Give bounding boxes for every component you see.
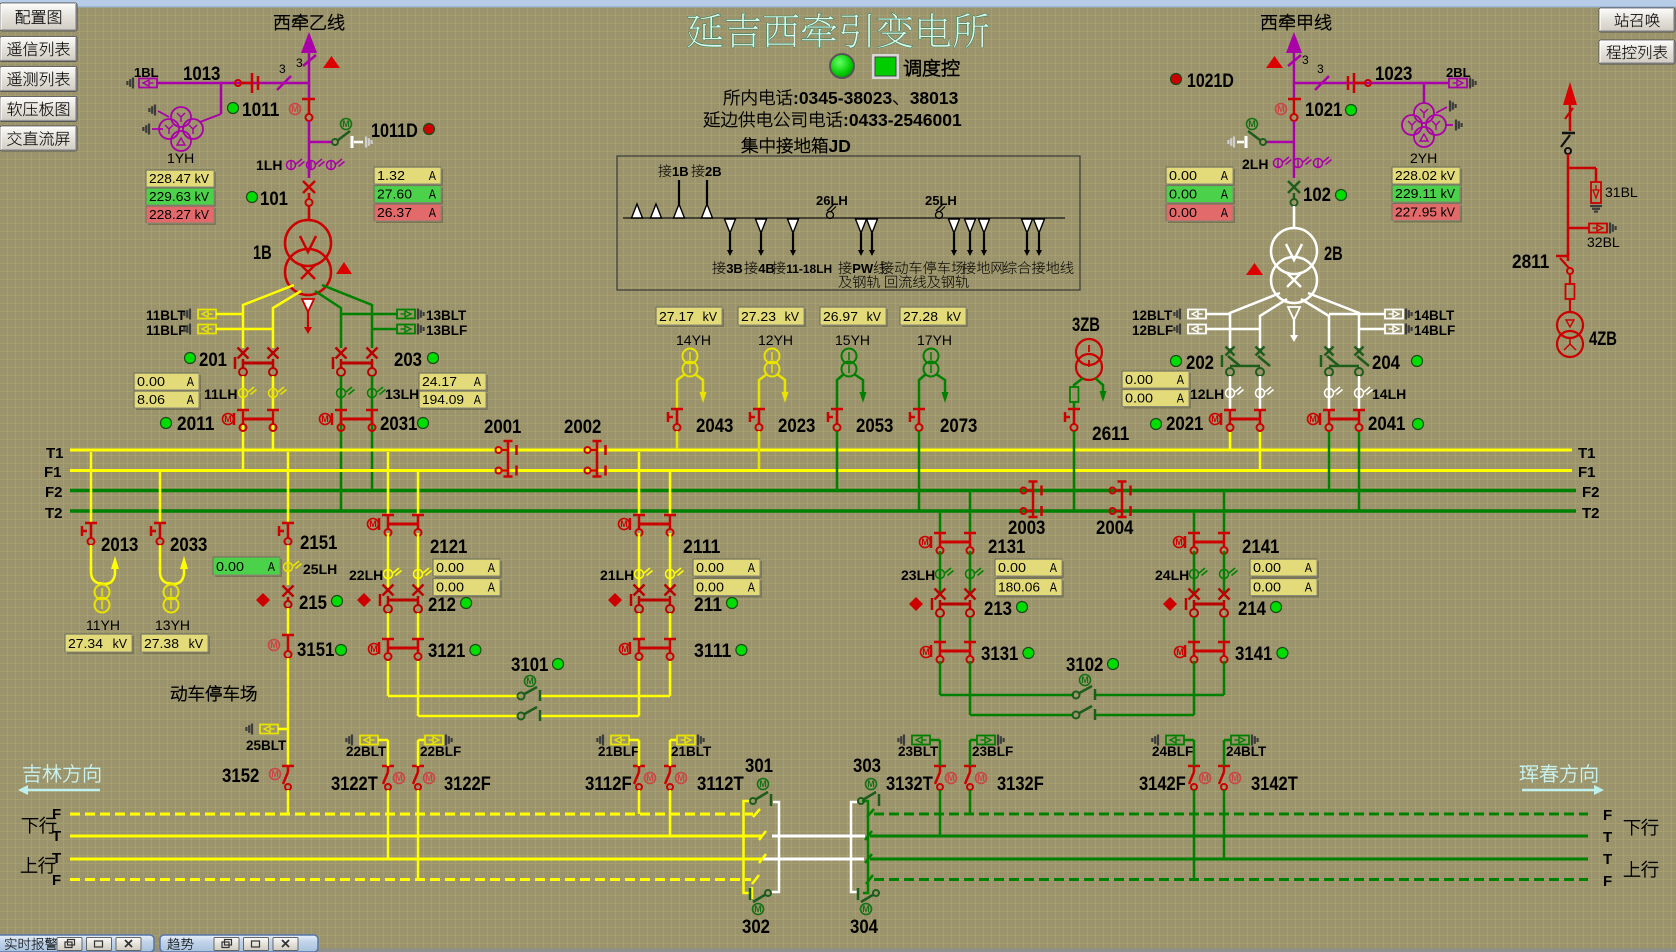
svg-text:3132F: 3132F [997,773,1044,795]
disconnector 3141 [1193,617,1196,641]
arrester 2BL [1449,79,1467,88]
wire 203 down [340,376,343,510]
svg-text:A: A [488,580,495,595]
svg-text:3111: 3111 [694,640,732,662]
svg-text:25LH: 25LH [303,561,337,577]
svg-text:3151: 3151 [297,639,335,661]
nav button 遥信列表 [0,37,77,62]
CT 21LH [638,533,641,588]
svg-text:2111: 2111 [683,536,721,558]
arrester 12BLT [1132,308,1173,323]
meter box 2151 [215,559,282,577]
nav button 程控列表 [1599,40,1675,64]
switch 3101 [388,695,519,698]
JD down arrow x1027 [1022,219,1033,233]
svg-text:A: A [187,392,194,407]
svg-text:13LH: 13LH [385,386,419,402]
svg-text:2004: 2004 [1096,517,1134,539]
disconnector 2031 [335,409,347,412]
breaker 213 [909,597,923,611]
svg-text:M: M [1231,773,1239,783]
svg-text:2041: 2041 [1368,413,1406,435]
meter boxes 2121 [435,561,502,578]
svg-text:4ZB: 4ZB [1589,328,1617,350]
JD up arrow x637 [632,204,643,218]
arrester 24BLF [1157,735,1159,746]
svg-text:M: M [370,644,378,654]
breaker 102 (open) [1288,181,1300,193]
open point slash 3 (upper) [303,55,316,66]
svg-text:kV: kV [947,309,962,324]
svg-text:1013: 1013 [183,63,221,85]
svg-text:1023: 1023 [1375,63,1413,85]
svg-text:201: 201 [199,349,227,371]
svg-text:2053: 2053 [856,415,894,437]
svg-text:14LH: 14LH [1372,386,1406,402]
switch 304 [873,890,879,896]
arrester 21BLT [670,739,677,742]
wire 3122F to rail [417,740,420,766]
svg-text:M: M [759,779,767,789]
yellow bracket [744,801,752,893]
arrester 21BLF [602,735,604,746]
svg-text:1.32: 1.32 [377,168,405,183]
breaker 204 (open) [1325,347,1334,356]
svg-text:1021D: 1021D [1187,70,1234,92]
breaker 101 [303,181,315,193]
svg-text:2011: 2011 [177,413,215,435]
svg-text:11BLF: 11BLF [146,323,187,338]
CT 24LH [1193,551,1196,592]
svg-text:22LH: 22LH [349,567,383,583]
breaker 1011 (M) [290,104,301,115]
CT 25LH [287,545,290,585]
svg-text:3142T: 3142T [1251,773,1298,795]
breaker 202 (open) [1226,347,1235,356]
svg-text:1011D: 1011D [371,120,418,142]
CT 11LH [204,386,237,402]
svg-text:2811: 2811 [1512,251,1550,273]
svg-text:A: A [1177,372,1184,387]
svg-text:3142F: 3142F [1139,773,1186,795]
svg-text:13YH: 13YH [155,617,190,633]
svg-text:A: A [474,392,481,407]
arrester 32BL [1568,227,1589,230]
svg-text:3131: 3131 [981,643,1019,665]
svg-text:A: A [1221,168,1228,183]
arrester 13BLT [341,313,397,316]
disconnector on 1013 [235,80,241,86]
open point slash 3 (upper right) [1288,55,1301,66]
svg-text:A: A [1305,560,1312,575]
svg-text:4B: 4B [758,261,775,276]
wire 2611 to T2 [1073,431,1076,510]
wire 3131 down [939,661,942,695]
slashes yellow rail ends [753,809,760,817]
meter boxes 3ZB [1124,373,1191,390]
disconnector 2013 [90,452,93,522]
svg-text:M: M [271,769,279,779]
arrester 23BLT [903,735,905,746]
svg-text:101: 101 [260,188,288,210]
svg-text:kV: kV [1441,205,1456,220]
svg-text:M: M [342,119,350,129]
switch 3112T [664,765,676,768]
label 西牵甲线 [1261,14,1331,30]
switch 303 [858,798,864,804]
CT 1LH [256,157,282,173]
svg-text:227.95: 227.95 [1395,205,1437,220]
meter box 17YH kV [902,309,968,327]
fuse 4ZB [1566,284,1575,299]
svg-text:27.28: 27.28 [903,309,938,324]
svg-text:211: 211 [694,594,722,616]
bus tie 2002 [596,441,599,477]
meter boxes 2141 [1252,561,1319,578]
svg-text:kV: kV [195,189,210,204]
JD label 及钢轨 [839,275,880,288]
svg-text:0.00: 0.00 [1169,168,1197,183]
wire 2053 to bus [836,431,839,489]
svg-text:24BLF: 24BLF [1152,744,1193,759]
meter boxes 203 [421,375,488,392]
JD up arrow 接2B [702,204,713,218]
disconnector 3151 [287,608,290,634]
svg-text:14YH: 14YH [676,332,711,348]
svg-text:11LH: 11LH [204,386,237,402]
svg-text:1YH: 1YH [167,150,194,166]
svg-text:229.11: 229.11 [1395,186,1437,201]
bus T2 [70,509,1576,513]
svg-text:1B: 1B [672,164,689,179]
JD label 接4B [744,261,774,276]
svg-text:F: F [1603,807,1612,824]
bus tie 2003 [1032,482,1035,518]
svg-text:180.06: 180.06 [998,580,1040,595]
svg-text:2021: 2021 [1166,413,1204,435]
CT 14LH [1325,387,1373,398]
svg-text::0345-38023: :0345-38023 [793,88,893,108]
svg-text:22BLT: 22BLT [346,744,387,759]
disconnector 3111 [638,613,641,638]
rail 下行T (white/green) [772,835,865,838]
meter box 11YH [67,636,134,654]
backup feeder arrow [1563,82,1577,105]
svg-text:304: 304 [850,916,878,938]
meter boxes 2131 [997,561,1064,578]
svg-text:A: A [187,374,194,389]
wire 2073 to bus [918,431,921,510]
breaker 1021 (M) [1276,104,1287,115]
svg-text:12BLT: 12BLT [1132,308,1173,323]
svg-text:F: F [52,872,61,889]
svg-text:26.37: 26.37 [377,205,412,220]
CT 13LH [337,387,386,398]
rail 上行F (yellow) [70,878,751,881]
svg-text:1B: 1B [253,242,272,264]
label 接2B [691,164,721,179]
switch 3132T [934,765,946,768]
svg-text:31BL: 31BL [1605,184,1638,200]
wire 3132F to rail [969,740,972,766]
open point slash 3 (1023) [1315,76,1329,90]
JD up arrow x656 [651,204,662,218]
arrester 13BLF [372,328,397,331]
svg-text:A: A [1050,580,1057,595]
svg-text:M: M [1211,414,1219,424]
svg-text:2BL: 2BL [1446,65,1471,80]
nav button 遥测列表 [0,67,77,92]
wire 202 down [1229,376,1232,409]
alarm triangle 2B [1246,263,1263,275]
svg-text:102: 102 [1303,184,1331,206]
transformer 1B [285,220,331,266]
status LED [830,54,854,78]
JD label 接11-18LH [772,261,832,276]
wire 2043 to bus [676,431,679,449]
svg-text:2YH: 2YH [1410,150,1437,166]
svg-text:228.02: 228.02 [1395,168,1437,183]
wire 102 to 2B [1293,206,1296,228]
disconnector 2053 [831,408,843,411]
svg-text:303: 303 [853,755,881,777]
svg-text:A: A [1050,560,1057,575]
switch 3142T [1218,765,1230,768]
svg-text:229.63: 229.63 [149,189,191,204]
svg-text:3101: 3101 [511,654,549,676]
wire 101 to 1B [308,206,311,220]
CT 23LH [939,551,942,592]
svg-text:2151: 2151 [300,532,338,554]
svg-text:A: A [1177,391,1184,406]
svg-text:0.00: 0.00 [1125,372,1153,387]
svg-text:M: M [1277,104,1285,114]
arrester 11BLT [146,308,186,323]
svg-text:11YH: 11YH [86,617,120,633]
svg-text:3: 3 [296,56,303,70]
svg-text:M: M [395,773,403,783]
switch 3102 [940,694,1074,697]
bus F1 [70,469,1572,472]
wire to 1011D [308,121,311,178]
svg-text:0.00: 0.00 [1253,580,1281,595]
svg-text:A: A [748,560,755,575]
label 西牵乙线 [274,14,344,30]
svg-text:2LH: 2LH [1242,156,1268,172]
svg-text:kV: kV [1441,186,1456,201]
PT 1YH [220,83,223,114]
JD label 接3B [712,261,742,276]
meter box 13YH [143,636,210,654]
wire incoming vertical [308,53,311,99]
svg-text:13BLF: 13BLF [426,323,467,338]
svg-text:A: A [429,205,436,220]
JD down arrow x954 [949,219,960,233]
svg-text:17YH: 17YH [917,332,952,348]
svg-text:A: A [1221,205,1228,220]
wire 2121 to bus [387,452,390,514]
disconnector 2121 [382,514,394,517]
svg-text:2121: 2121 [430,536,468,558]
arrester 22BLT [351,735,353,746]
disconnector 2073 [913,408,925,411]
1B neutral arrow [302,299,314,312]
svg-text:3: 3 [279,62,286,76]
svg-text:27.34: 27.34 [68,636,103,651]
svg-text:1021: 1021 [1305,99,1343,121]
switch 302 [765,890,771,896]
rail 上行F (green) [874,878,1588,881]
wire 2023 to bus [758,431,761,469]
svg-text:2073: 2073 [940,415,978,437]
svg-text:M: M [947,773,955,783]
bus T1 [70,449,1572,452]
svg-text:0.00: 0.00 [436,580,464,595]
svg-text:2B: 2B [705,164,722,179]
open point slash 3 (1013) [277,76,291,90]
svg-text:0.00: 0.00 [696,580,724,595]
wire 3121 down [387,661,390,696]
neutral section white rails [772,835,851,838]
svg-text:302: 302 [742,916,770,938]
svg-text:2B: 2B [1324,243,1343,265]
svg-text:A: A [488,560,495,575]
svg-text:T: T [1603,851,1612,868]
svg-text:0.00: 0.00 [696,560,724,575]
arrester 11BLF [146,323,187,338]
label 吉林方向 [23,764,100,782]
earthing switch 1021D [1260,139,1266,145]
svg-text:21BLF: 21BLF [598,744,639,759]
svg-text:1011: 1011 [242,99,280,121]
meter boxes kV (west) [148,172,216,189]
svg-text:M: M [1176,647,1184,657]
svg-text:kV: kV [189,636,204,651]
svg-text:12LH: 12LH [1190,386,1224,402]
svg-text:F: F [1603,873,1612,890]
nav button 软压板图 [0,97,77,122]
wire 3151 down [287,658,290,766]
dispatch control square [872,54,899,79]
earthing knife (black) [1562,132,1575,135]
svg-text:M: M [646,773,654,783]
svg-text:A: A [474,374,481,389]
JD label 综合接地线 [1004,261,1074,274]
green bracket [862,801,868,893]
svg-text:F1: F1 [1578,464,1596,481]
JD down arrow x793 [788,219,799,233]
svg-text:3: 3 [1317,62,1324,76]
disconnector 2041 [1323,409,1335,412]
transformer 4ZB [1557,312,1583,338]
label 珲春方向 [1520,764,1597,782]
arrester 22BLF [418,739,425,742]
svg-text:21BLT: 21BLT [671,744,712,759]
wire 2B to feeders [1230,293,1280,348]
meter boxes kV (east) [1394,169,1462,186]
rail 下行F (yellow) [70,813,753,816]
svg-text:14BLT: 14BLT [1414,308,1455,323]
station title [687,13,988,48]
svg-text:213: 213 [984,598,1012,620]
svg-text:A: A [268,559,275,574]
arrester 24BLT [1224,739,1231,742]
svg-text:T1: T1 [1578,445,1596,462]
svg-text:3122T: 3122T [331,773,378,795]
CT 25LH [925,193,957,208]
svg-text:T: T [52,828,61,845]
svg-text:22BLF: 22BLF [420,744,461,759]
breaker 211 [608,593,622,607]
switch 3122T [382,765,394,768]
svg-text:23LH: 23LH [901,567,935,583]
svg-text:A: A [1305,580,1312,595]
svg-text:A: A [1221,187,1228,202]
svg-text:M: M [867,779,875,789]
svg-text:204: 204 [1372,352,1400,374]
svg-text:194.09: 194.09 [422,392,464,407]
alarm triangle red [323,56,340,68]
wire 201 down [242,376,245,469]
svg-text:301: 301 [745,755,773,777]
svg-text:1LH: 1LH [256,157,282,173]
rail 上行T (yellow) [70,858,762,861]
window 实时报警 [0,935,154,952]
rail 上行T (white/green) [763,858,864,861]
rail 下行T (yellow) [70,835,762,838]
svg-text:228.47: 228.47 [149,171,191,186]
top window strip [0,0,1676,7]
svg-text:M: M [291,104,299,114]
meter boxes 201 [136,375,201,392]
disconnector 2141 [1188,532,1200,535]
JD down arrow x761 [756,219,767,233]
svg-text:2141: 2141 [1242,536,1280,558]
switch 3132F [964,765,976,768]
rail 下行F (green) [874,813,1588,816]
svg-text:203: 203 [394,349,422,371]
taskbar edge [0,949,1676,952]
window 趋势 [160,935,318,952]
svg-text:3122F: 3122F [444,773,491,795]
svg-text:3102: 3102 [1066,654,1104,676]
nav button 配置图 [0,3,77,31]
svg-text:F: F [52,806,61,823]
label 集中接地箱JD [742,136,851,156]
switch 3142F [1188,765,1200,768]
svg-text:27.17: 27.17 [659,309,694,324]
svg-text:27.23: 27.23 [741,309,776,324]
JD down arrow x730 [725,219,736,233]
rail labels left [22,817,56,833]
svg-text:2013: 2013 [101,534,139,556]
breaker 203 [336,348,347,359]
svg-text:23BLF: 23BLF [972,744,1013,759]
svg-text:M: M [621,644,629,654]
svg-text:JD: JD [829,136,851,156]
meter box 15YH kV [822,309,888,327]
disconnector 2151 [287,452,290,522]
svg-text:T: T [52,850,61,867]
label 动车停车场 [171,685,256,701]
svg-text:A: A [748,580,755,595]
svg-text:23BLT: 23BLT [898,744,939,759]
svg-text::0433-2546001: :0433-2546001 [843,110,962,130]
svg-text:3112T: 3112T [697,773,744,795]
svg-text:24.17: 24.17 [422,374,457,389]
svg-text:214: 214 [1238,598,1266,620]
svg-text:T: T [1603,829,1612,846]
